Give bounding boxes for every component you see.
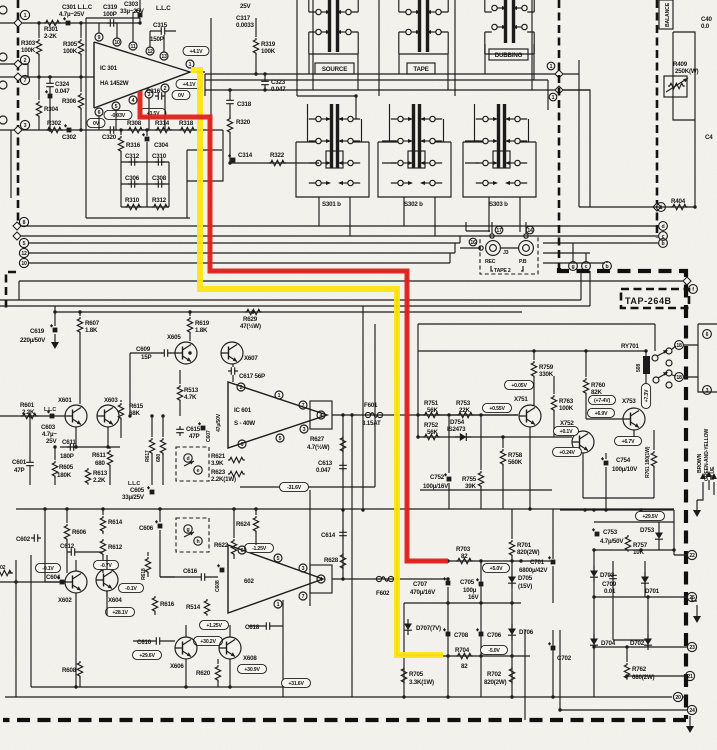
- resistor R759: [531, 351, 553, 405]
- resistor R616: [152, 595, 174, 615]
- badge +4.1V: [176, 79, 202, 88]
- resistor R312: [152, 197, 169, 210]
- resistor R620: [196, 659, 221, 687]
- svg-text:X602: X602: [58, 597, 72, 604]
- svg-text:R614: R614: [108, 519, 123, 526]
- capacitor C752: [423, 415, 451, 490]
- terminal 2: [20, 55, 29, 64]
- svg-text:4.7µ~: 4.7µ~: [42, 431, 57, 438]
- capacitor C320: [102, 126, 117, 141]
- connector box g h: [176, 518, 209, 552]
- svg-text:C603: C603: [41, 424, 56, 431]
- svg-text:3: 3: [303, 427, 306, 433]
- svg-text:470µ/16V: 470µ/16V: [410, 589, 436, 596]
- wire 20 to border: [683, 696, 687, 698]
- terminal b: [659, 239, 668, 248]
- svg-text:(15V): (15V): [518, 583, 532, 590]
- capacitor C319: [103, 4, 118, 27]
- capacitor C603: [41, 410, 57, 445]
- capacitor C707: [410, 577, 450, 596]
- svg-text:C306: C306: [125, 175, 140, 182]
- terminal c: [582, 262, 591, 271]
- capacitor C408 top right: [701, 16, 713, 30]
- switch S303 b box: [463, 104, 536, 197]
- wire mid rail y=509: [16, 508, 674, 510]
- svg-text:C705: C705: [460, 579, 475, 586]
- node diamond f: [683, 277, 691, 285]
- svg-text:0.047: 0.047: [55, 88, 70, 95]
- svg-text:IC 301: IC 301: [100, 65, 118, 72]
- badge -1.25V: [245, 543, 274, 552]
- transistor X753: [622, 398, 645, 430]
- svg-text:D707(7V): D707(7V): [416, 625, 441, 632]
- svg-text:R763: R763: [559, 398, 574, 405]
- resistor R319: [253, 18, 275, 74]
- svg-text:R304: R304: [44, 106, 59, 113]
- wire pin stubs: [99, 12, 165, 130]
- svg-text:2: 2: [24, 58, 27, 64]
- pin 1: [275, 391, 283, 399]
- pin 3: [299, 564, 307, 572]
- svg-text:C702: C702: [557, 655, 572, 662]
- terminal 25: [687, 592, 696, 601]
- svg-text:7: 7: [302, 594, 305, 600]
- wire row y=163: [230, 162, 319, 164]
- svg-text:D701: D701: [645, 588, 660, 595]
- wire long verticals mid: [130, 306, 375, 697]
- svg-text:C605: C605: [130, 487, 145, 494]
- wire rail y=490: [420, 489, 552, 491]
- diode D706: [508, 624, 534, 640]
- switch S301 b box: [296, 104, 369, 197]
- svg-text:25V: 25V: [240, 3, 251, 10]
- svg-text:5: 5: [279, 436, 282, 442]
- svg-text:g: g: [572, 264, 575, 270]
- badge +4.1V: [183, 46, 209, 55]
- resistor R618: [141, 552, 151, 580]
- resistor R601: [0, 402, 65, 419]
- capacitor C601: [12, 416, 34, 485]
- resistor stub left edge: [0, 565, 13, 576]
- capacitor C706: [476, 628, 502, 639]
- wire X751 X752 X753 interconnect: [449, 404, 654, 509]
- svg-text:R314: R314: [155, 120, 170, 127]
- svg-text:2.2K: 2.2K: [93, 477, 106, 484]
- svg-text:R613: R613: [93, 470, 108, 477]
- svg-text:8: 8: [23, 220, 26, 226]
- resistor R623: [211, 469, 245, 483]
- svg-text:R704: R704: [455, 647, 470, 654]
- capacitor C708: [443, 628, 469, 639]
- terminal 12: [19, 248, 28, 257]
- svg-text:3.9K: 3.9K: [211, 460, 224, 467]
- pin 6: [238, 546, 246, 554]
- wire output row: [196, 72, 205, 96]
- svg-text:C320: C320: [102, 134, 117, 141]
- terminal g: [569, 262, 578, 271]
- svg-text:C604: C604: [46, 574, 61, 581]
- terminal 3: [703, 386, 712, 395]
- wire power rows right: [525, 498, 687, 720]
- svg-text:+0.05V: +0.05V: [511, 383, 527, 389]
- wire: [187, 130, 223, 218]
- resistor R513: [177, 370, 198, 416]
- svg-text:2.2K(1W): 2.2K(1W): [211, 476, 236, 483]
- svg-text:C615: C615: [186, 426, 201, 433]
- wire IC601 out: [332, 414, 518, 416]
- resistor R302: [46, 120, 63, 133]
- svg-text:X753: X753: [622, 398, 636, 405]
- resistor R624: [236, 509, 259, 545]
- svg-text:C304: C304: [154, 142, 169, 149]
- IC301 outer box: [86, 18, 211, 218]
- svg-text:R622: R622: [214, 542, 229, 549]
- resistor R608: [62, 660, 83, 687]
- transistor X751: [514, 396, 541, 427]
- switch S303 b slider: [493, 104, 510, 168]
- svg-text:C753: C753: [603, 529, 618, 536]
- svg-text:C601: C601: [12, 459, 27, 466]
- switch slider: [418, 0, 429, 52]
- svg-text:R605: R605: [59, 464, 74, 471]
- svg-text:6800µ/42V: 6800µ/42V: [519, 567, 548, 574]
- resistor R611: [92, 447, 113, 485]
- svg-text:C308: C308: [152, 175, 167, 182]
- svg-text:R618: R618: [141, 568, 147, 580]
- terminal 21: [685, 671, 694, 680]
- svg-text:1: 1: [552, 95, 555, 101]
- svg-text:X607: X607: [244, 355, 258, 362]
- svg-text:C709: C709: [602, 581, 617, 588]
- svg-text:R305: R305: [63, 41, 78, 48]
- svg-text:C614: C614: [321, 532, 336, 539]
- svg-text:F601: F601: [364, 402, 378, 409]
- svg-text:X606: X606: [170, 663, 184, 670]
- svg-text:R606: R606: [72, 529, 87, 536]
- svg-text:D704: D704: [601, 640, 616, 647]
- capacitor C618: [245, 622, 283, 631]
- capacitor C314: [228, 152, 253, 162]
- svg-text:47µ/50V: 47µ/50V: [216, 413, 222, 432]
- connector J3 REC jack: [486, 241, 501, 256]
- wire yellow-trace underlying black: [397, 289, 443, 655]
- dashed corner lower-left of top section: [6, 272, 16, 311]
- pin 2: [161, 84, 169, 92]
- resistor R404: [671, 198, 688, 210]
- capacitor C617: [228, 364, 265, 382]
- svg-text:R629: R629: [243, 316, 258, 323]
- switch contacts: [316, 9, 351, 34]
- svg-text:680: 680: [156, 454, 162, 462]
- svg-text:R319: R319: [261, 41, 276, 48]
- svg-text:C324: C324: [55, 81, 70, 88]
- wire amp top rail: [55, 306, 522, 312]
- svg-text:REC: REC: [485, 259, 496, 265]
- pin 4: [310, 565, 332, 593]
- svg-text:02: 02: [0, 565, 6, 571]
- svg-text:6: 6: [98, 110, 101, 116]
- node diamond: [13, 222, 21, 230]
- svg-text:100µ: 100µ: [463, 587, 477, 594]
- svg-text:7: 7: [302, 403, 305, 409]
- right edge connector box: [698, 324, 717, 392]
- svg-text:L.L.C: L.L.C: [156, 5, 171, 12]
- BALANCE label box: [659, 0, 673, 29]
- resistor R308: [127, 120, 144, 133]
- svg-text:C4: C4: [705, 134, 713, 141]
- capacitor C609: [130, 346, 175, 361]
- connector J3 dashed box: [480, 236, 538, 274]
- wire (row y=243): [29, 236, 658, 243]
- wire right amp box top: [418, 324, 655, 437]
- wire R404 row: [579, 120, 695, 207]
- svg-text:R310: R310: [125, 197, 140, 204]
- svg-text:R312: R312: [152, 197, 167, 204]
- badge +29.5V: [636, 511, 665, 520]
- svg-text:+4.1V: +4.1V: [190, 49, 203, 55]
- node circles: [479, 234, 528, 250]
- wire: [0, 22, 86, 24]
- relay RY701: [621, 343, 650, 407]
- resistor R318: [179, 120, 196, 133]
- resistor R619: [187, 312, 209, 341]
- badge -31.6V: [280, 482, 309, 491]
- capacitor C312: [125, 153, 140, 166]
- resistor R322: [269, 152, 286, 166]
- dashed vertical mid (x=559): [558, 0, 561, 268]
- svg-text:3: 3: [302, 566, 305, 572]
- svg-text:C318: C318: [237, 101, 252, 108]
- wire: [49, 96, 51, 130]
- svg-text:C609: C609: [136, 346, 151, 353]
- svg-text:12: 12: [147, 49, 153, 55]
- svg-text:5: 5: [277, 556, 280, 562]
- wire relay to edge: [672, 345, 698, 377]
- resistor R617: [145, 416, 155, 485]
- svg-text:S301 b: S301 b: [322, 201, 341, 208]
- badge -5.0V: [481, 645, 508, 654]
- pin 5: [112, 102, 120, 110]
- svg-text:R301: R301: [44, 26, 59, 33]
- wire right to R404 column: [563, 74, 590, 207]
- svg-text:h: h: [197, 539, 200, 545]
- wire long row y=306: [0, 305, 590, 307]
- svg-text:11: 11: [130, 44, 135, 50]
- wire long row y=300: [0, 299, 581, 301]
- svg-text:+6.7V: +6.7V: [622, 439, 635, 445]
- svg-text:4: 4: [132, 98, 135, 104]
- switch frame wires: [309, 0, 358, 54]
- pin 11: [129, 42, 137, 50]
- svg-text:X751: X751: [514, 396, 528, 403]
- badge +0.24V: [553, 447, 582, 456]
- svg-text:R753: R753: [456, 400, 471, 407]
- svg-text:C310: C310: [152, 153, 167, 160]
- wire left vertical: [10, 130, 12, 198]
- svg-text:D753: D753: [640, 527, 655, 534]
- svg-text:C754: C754: [616, 457, 631, 464]
- wire bottom rail: [5, 696, 672, 698]
- svg-text:7: 7: [24, 78, 27, 84]
- svg-text:0.01: 0.01: [604, 588, 616, 595]
- svg-text:1.8K: 1.8K: [85, 327, 98, 334]
- svg-text:3.3K(1W): 3.3K(1W): [409, 679, 434, 686]
- relay contacts: [652, 348, 672, 388]
- capacitor C607: [198, 413, 222, 442]
- svg-text:C316: C316: [146, 88, 161, 95]
- resistor R621: [211, 453, 245, 467]
- badge 0V: [87, 118, 105, 127]
- terminal 20: [673, 692, 682, 701]
- svg-text:e: e: [197, 468, 200, 474]
- pin 9: [95, 33, 103, 41]
- svg-text:R306: R306: [62, 98, 77, 105]
- resistor R612: [100, 538, 122, 573]
- svg-text:C315: C315: [153, 22, 168, 29]
- terminal 1: [20, 10, 29, 19]
- resistor R762: [624, 647, 654, 681]
- badge +30.9V: [238, 664, 267, 673]
- svg-text:330K: 330K: [539, 371, 554, 378]
- wire row y=73: [205, 60, 579, 110]
- resistor R704: [455, 647, 473, 670]
- svg-text:R608: R608: [62, 667, 77, 674]
- resistor R314: [155, 120, 172, 133]
- badge +0.05V: [505, 380, 534, 389]
- terminal d: [659, 222, 668, 231]
- svg-text:R514: R514: [186, 604, 201, 611]
- resistor R763: [551, 376, 573, 437]
- pin 13: [160, 52, 168, 60]
- node diamond: [555, 70, 563, 78]
- svg-text:R623: R623: [211, 469, 226, 476]
- badge +31.6V: [282, 678, 311, 687]
- capacitor C605: [122, 481, 154, 501]
- wire J3 feeds: [460, 222, 526, 248]
- terminal 16: [469, 238, 477, 246]
- wire red-trace underlying black: [210, 115, 448, 561]
- switch slider: [328, 0, 339, 52]
- terminal 18: [675, 341, 684, 350]
- resistor R753: [456, 400, 474, 418]
- pin 3: [300, 425, 308, 433]
- op-amp IC602: [228, 545, 323, 613]
- resistor R6x 680: [156, 416, 166, 485]
- capacitor C613: [316, 460, 347, 474]
- svg-text:1: 1: [550, 64, 553, 70]
- svg-text:C607: C607: [206, 430, 212, 442]
- svg-text:SOURCE: SOURCE: [322, 66, 347, 73]
- svg-text:R628: R628: [324, 557, 339, 564]
- svg-text:C323: C323: [271, 79, 286, 86]
- diode D701: [641, 572, 660, 595]
- svg-text:R751: R751: [424, 400, 439, 407]
- transistor X606: [170, 637, 197, 670]
- resistor R306: [62, 77, 84, 130]
- transistor X607: [221, 342, 258, 364]
- svg-text:+31.6V: +31.6V: [288, 681, 304, 687]
- resistor R751: [423, 400, 440, 418]
- svg-text:+1.25V: +1.25V: [206, 623, 222, 629]
- capacitor C612: [60, 543, 103, 556]
- svg-text:2.2K: 2.2K: [22, 409, 35, 416]
- svg-text:C301 L.L.C: C301 L.L.C: [62, 4, 93, 11]
- svg-text:820(2W): 820(2W): [484, 679, 506, 686]
- svg-text:-0.03V: -0.03V: [111, 113, 126, 119]
- pin 10: [113, 38, 121, 46]
- potentiometer R409: [664, 32, 698, 120]
- svg-text:4.7µ~25V: 4.7µ~25V: [59, 11, 85, 18]
- capacitor C316: [146, 88, 165, 100]
- svg-text:602: 602: [244, 578, 254, 585]
- badge -0.1V: [119, 583, 144, 592]
- fuse F602: [376, 576, 394, 597]
- svg-text:4.7µ/50V: 4.7µ/50V: [600, 538, 624, 545]
- svg-text:R752: R752: [424, 422, 439, 429]
- resistor R758: [500, 437, 522, 509]
- svg-text:+0.1V: +0.1V: [560, 429, 573, 435]
- diode D707 zener: [404, 619, 441, 635]
- svg-text:R701: R701: [517, 542, 532, 549]
- svg-text:R755: R755: [462, 476, 477, 483]
- resistor R614: [100, 509, 122, 534]
- svg-text:0.0: 0.0: [701, 23, 710, 30]
- svg-text:X608: X608: [243, 655, 257, 662]
- svg-text:-5.0V: -5.0V: [488, 648, 500, 654]
- capacitor C308: [152, 175, 167, 188]
- badge +5.0V: [483, 563, 510, 572]
- svg-text:R761 180(1W): R761 180(1W): [645, 446, 651, 478]
- transistor X603: [97, 397, 119, 427]
- svg-text:13: 13: [161, 54, 167, 60]
- terminal 6: [703, 330, 712, 339]
- diode D703: [590, 566, 615, 582]
- op-amp IC301 triangle: [94, 42, 190, 108]
- capacitor C310: [152, 153, 167, 166]
- svg-text:4.7K: 4.7K: [184, 394, 197, 401]
- svg-text:RY701: RY701: [621, 343, 639, 350]
- svg-text:L.L.C: L.L.C: [44, 407, 56, 413]
- svg-text:R620: R620: [196, 670, 211, 677]
- capacitor C306: [125, 175, 140, 188]
- svg-text:R308: R308: [127, 120, 142, 127]
- svg-text:b: b: [662, 241, 665, 247]
- svg-text:C606: C606: [139, 525, 154, 532]
- wire verticals g c b: [573, 243, 607, 263]
- svg-text:-1.25V: -1.25V: [252, 546, 267, 552]
- svg-text:6: 6: [241, 442, 244, 448]
- svg-text:5: 5: [115, 104, 118, 110]
- svg-text:680(2W): 680(2W): [632, 674, 654, 681]
- capacitor C323: [261, 74, 286, 93]
- svg-text:56K: 56K: [427, 429, 438, 436]
- edge connector circles: [0, 6, 7, 124]
- switch S303 b contacts: [483, 116, 520, 185]
- svg-text:18: 18: [676, 375, 682, 381]
- svg-text:3: 3: [706, 388, 709, 394]
- capacitor C608: [215, 564, 224, 592]
- svg-text:R404: R404: [671, 198, 686, 205]
- svg-text:R318: R318: [179, 120, 194, 127]
- svg-text:S303 b: S303 b: [489, 201, 508, 208]
- svg-text:0.047: 0.047: [316, 467, 331, 474]
- svg-text:22: 22: [689, 553, 695, 559]
- svg-text:R303: R303: [21, 40, 36, 47]
- label box TAPE: [407, 63, 435, 74]
- left dashed border (top section): [17, 0, 20, 223]
- capacitor C604: [46, 574, 64, 584]
- resistor R760: [583, 351, 605, 419]
